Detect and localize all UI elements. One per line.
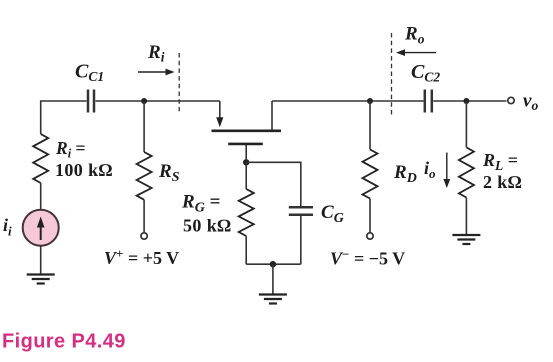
svg-text:ii: ii	[3, 215, 12, 239]
wire: drain vertical	[271, 101, 273, 130]
svg-text:CC1: CC1	[75, 61, 104, 85]
svg-text:V+ = +5 V: V+ = +5 V	[104, 246, 179, 268]
capacitor CC1	[88, 90, 94, 113]
wire: Ri to current source	[40, 183, 42, 210]
wire: gate lead down	[245, 145, 247, 162]
node: bottom rail junction dot	[270, 261, 276, 267]
svg-text:RL =: RL =	[482, 150, 518, 173]
transistor Q1 (p-channel MOSFET, simplified symbol)	[212, 101, 282, 162]
wire: drain to output node	[272, 100, 424, 102]
terminal: vo output	[508, 97, 514, 103]
terminal: V+	[141, 233, 147, 239]
ground (load)	[452, 235, 480, 244]
node: RL branch junction dot	[463, 98, 469, 104]
svg-text:CC2: CC2	[411, 61, 440, 85]
node: input node junction dot	[141, 98, 147, 104]
wire: gate node to CG branch	[246, 162, 301, 206]
wire: CG down to bottom rail	[300, 216, 302, 264]
terminal: V-	[367, 233, 373, 239]
wire: CC1 to transistor source drop	[96, 100, 220, 102]
resistor RL	[459, 147, 474, 197]
wire: RD to V- terminal	[369, 199, 371, 233]
arrow: Ri direction arrow pointing right	[138, 69, 175, 76]
svg-text:RD: RD	[393, 162, 417, 186]
svg-text:50 kΩ: 50 kΩ	[183, 216, 231, 236]
svg-text:CG: CG	[321, 202, 344, 226]
wire: to ground	[272, 264, 274, 294]
svg-text:Figure P4.49: Figure P4.49	[2, 331, 126, 353]
arrow: io current arrow pointing down	[443, 153, 450, 189]
wire: CC2 to output terminal	[433, 100, 506, 102]
dashed cut line at input	[178, 53, 180, 112]
svg-text:Ri =: Ri =	[55, 138, 86, 161]
svg-text:Ri: Ri	[147, 42, 165, 65]
resistor RS	[137, 152, 152, 200]
node: gate junction dot	[243, 159, 249, 165]
capacitor CG	[289, 207, 313, 215]
resistor Ri	[33, 134, 48, 183]
svg-text:io: io	[424, 158, 436, 181]
wire: top-left horizontal from Ri branch to CC1	[41, 101, 87, 134]
wire: RD branch down	[369, 101, 371, 150]
wire: RG down to bottom rail	[245, 236, 247, 264]
channel bar	[212, 130, 282, 133]
svg-text:2 kΩ: 2 kΩ	[483, 172, 522, 192]
svg-text:RG =: RG =	[181, 192, 220, 216]
svg-text:Ro: Ro	[404, 24, 425, 47]
svg-text:100 kΩ: 100 kΩ	[55, 160, 113, 180]
capacitor CC2	[425, 90, 432, 113]
arrow: Ro direction arrow pointing left	[396, 49, 436, 56]
wire: gate node down to RG	[245, 162, 247, 189]
resistor RD	[363, 150, 378, 199]
resistor RG	[239, 189, 254, 236]
wire: source drop with arrow	[219, 101, 221, 118]
gate bar	[228, 143, 263, 146]
wire: RL to ground	[465, 198, 467, 235]
wire: RS to V+ terminal	[143, 200, 145, 233]
ground (input)	[27, 275, 55, 284]
svg-text:vo: vo	[523, 91, 538, 114]
node: RD branch junction dot	[367, 98, 373, 104]
wire: RL branch down	[465, 101, 467, 147]
ground (gate network)	[259, 295, 287, 304]
current source ii	[23, 210, 59, 246]
wire: RS branch from node	[143, 101, 145, 152]
wire: current source to ground	[40, 245, 42, 274]
wire: bottom rail of RG/CG	[246, 263, 301, 265]
svg-text:V− = −5 V: V− = −5 V	[330, 247, 405, 269]
dashed cut line at output	[391, 33, 393, 115]
svg-text:RS: RS	[158, 161, 180, 185]
